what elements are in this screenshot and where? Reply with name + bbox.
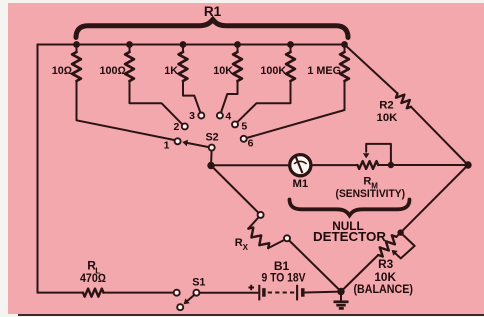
wire: R2 to right vertex (411, 107, 468, 165)
node: right bridge vertex dot (464, 161, 471, 168)
svg-text:470Ω: 470Ω (80, 271, 106, 285)
battery B1 right cell short plate (301, 288, 305, 297)
resistor R1e 100K (237, 45, 295, 123)
ground symbol (334, 292, 349, 309)
wire: right vertex to R3 wiper node (401, 165, 468, 233)
resistor RL 470 ohm zigzag (83, 289, 104, 297)
svg-text:(BALANCE): (BALANCE) (353, 284, 413, 296)
RM wiper loop with arrow (363, 144, 391, 165)
node: bottom vertex junction dot (337, 288, 344, 295)
svg-text:DETECTOR: DETECTOR (313, 230, 386, 244)
switch S2 contact 5 (232, 121, 238, 127)
node: R3 wiper tie dot (397, 229, 403, 235)
switch S2 wiper arrow toward contact 1 (182, 140, 209, 147)
svg-text:R1: R1 (204, 4, 222, 19)
switch S2 contact 6 (241, 136, 247, 142)
svg-text:100Ω: 100Ω (99, 65, 125, 77)
switch S1 pole contact (177, 304, 183, 310)
svg-text:R2: R2 (379, 100, 393, 112)
svg-text:X: X (243, 243, 249, 252)
svg-text:2: 2 (173, 121, 179, 133)
battery B1 plus sign (249, 285, 255, 290)
wire: battery to ground node (305, 291, 341, 294)
switch S1 lever arrow (184, 295, 195, 305)
resistor R1a 10 ohm (72, 45, 175, 141)
brace for NULL DETECTOR group (290, 200, 410, 216)
terminal: RX upper binding post (258, 212, 264, 218)
resistor R1d 10K (221, 45, 242, 113)
battery B1 left cell long plate (258, 285, 260, 301)
wire: RL to S1 (104, 292, 175, 294)
battery B1 left cell short plate (262, 288, 266, 297)
svg-text:100K: 100K (260, 65, 286, 77)
terminal: RX lower binding post (284, 235, 290, 241)
node: top bus dot for R1f 1 MEG (341, 41, 348, 48)
resistor RX unknown resistor (248, 217, 284, 248)
switch S1 right contact (193, 290, 199, 296)
battery B1 right cell long plate (296, 285, 298, 301)
potentiometer R3 10K zigzag (balance) (341, 233, 401, 292)
switch S2 common contact (209, 145, 215, 151)
wire: 1 MEG node to R2 (345, 45, 398, 94)
node: left bridge junction dot (207, 162, 214, 169)
resistor R1b 100 ohm (125, 45, 182, 125)
svg-text:R: R (235, 237, 243, 249)
switch S2 contact 3 (198, 113, 204, 119)
svg-text:1 MEG: 1 MEG (307, 65, 341, 77)
switch S1 left contact (174, 290, 180, 296)
svg-text:10K: 10K (213, 65, 233, 77)
resistor R1c 1K (179, 45, 201, 113)
svg-text:S2: S2 (205, 132, 218, 144)
resistor R1f 1 MEG (247, 45, 349, 139)
svg-text:10Ω: 10Ω (52, 65, 72, 77)
brace for R1 group (76, 20, 348, 38)
svg-text:(SENSITIVITY): (SENSITIVITY) (336, 188, 406, 200)
svg-text:4: 4 (225, 110, 231, 122)
wire: junction to meter M1 (211, 164, 290, 166)
wire: top bus from left frame corner to 1 MEG node (38, 44, 345, 46)
wire: left frame vertical (37, 45, 39, 293)
svg-text:9 TO 18V: 9 TO 18V (262, 271, 306, 285)
resistor R2 10K zigzag (396, 94, 411, 109)
svg-text:R3: R3 (378, 257, 394, 271)
node: top bus dot for R1b 100 ohm (126, 41, 133, 48)
svg-text:6: 6 (248, 137, 254, 149)
svg-text:3: 3 (189, 110, 195, 122)
svg-text:S1: S1 (192, 276, 205, 288)
node: top bus dot for R1e 100K (287, 41, 294, 48)
wire: bottom left to RL (38, 292, 84, 294)
switch S2 contact 1 (175, 138, 181, 144)
bottom border rule of figure (18, 314, 484, 316)
node: RM wiper tie dot (388, 162, 394, 168)
switch S2 contact 4 (217, 113, 223, 119)
wire: S1 to battery (199, 292, 257, 294)
battery B1 omitted-cells dashed link (268, 292, 294, 294)
wire: RM to right vertex (378, 164, 465, 166)
node: top bus dot for R1c 1K (180, 41, 187, 48)
svg-text:1K: 1K (164, 65, 178, 77)
svg-text:M1: M1 (292, 178, 308, 190)
svg-text:5: 5 (241, 120, 247, 132)
svg-text:10K: 10K (377, 112, 399, 124)
R3 wiper loop with arrow (392, 233, 415, 259)
potentiometer RM zigzag (sensitivity rheostat) (358, 161, 379, 169)
svg-text:1: 1 (164, 140, 170, 152)
wire: junction up to S2 common (210, 151, 213, 166)
node: top bus dot for R1a 10 ohm (73, 41, 80, 48)
svg-text:10K: 10K (374, 270, 396, 284)
svg-text:R: R (363, 175, 371, 187)
meter M1 (290, 155, 311, 176)
switch S2 contact 2 (182, 123, 188, 129)
wire: meter to RM (311, 164, 358, 166)
wire: ground node to RX lower terminal (289, 241, 341, 292)
wire: left bridge junction to RX upper terminal (211, 166, 259, 213)
node: top bus dot for R1d 10K (234, 41, 241, 48)
